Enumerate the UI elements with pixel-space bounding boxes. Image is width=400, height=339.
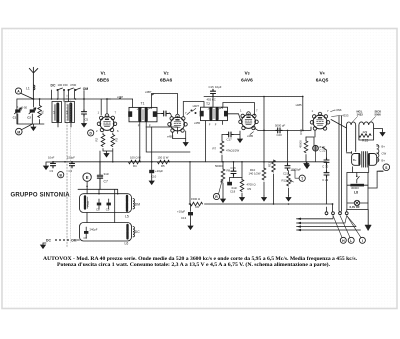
svg-text:DC: DC xyxy=(135,230,140,234)
svg-text:x4R7: x4R7 xyxy=(193,104,200,108)
svg-text:5000pF: 5000pF xyxy=(292,168,302,172)
plug I xyxy=(359,237,365,243)
wire S to L8 box xyxy=(368,165,383,188)
svg-text:+10μF: +10μF xyxy=(177,210,185,214)
svg-text:T2: T2 xyxy=(206,102,210,106)
wire V3 plate to V4 grid xyxy=(258,127,311,130)
svg-text:C3: C3 xyxy=(50,169,54,173)
pot wiper arrow xyxy=(219,181,223,194)
svg-text:45000: 45000 xyxy=(299,140,303,148)
wire long bus low xyxy=(205,203,333,205)
wire C15 top bus xyxy=(204,90,303,108)
svg-text:F: F xyxy=(215,123,217,127)
svg-text:DC: DC xyxy=(51,84,56,88)
svg-text:R4: R4 xyxy=(133,164,137,168)
wire switch drops xyxy=(52,89,85,102)
resistor R9 xyxy=(240,180,244,192)
wire T2 to V3 xyxy=(205,114,240,162)
capacitor C7 xyxy=(97,162,102,190)
wire T1 entry/exit xyxy=(133,99,190,162)
wire transformer primary to L8 box xyxy=(352,167,354,173)
field coil hump 2 xyxy=(359,122,374,140)
tube V1 xyxy=(97,114,117,132)
svg-text:150pF: 150pF xyxy=(67,156,75,160)
svg-text:GRUPPO SINTONIA: GRUPPO SINTONIA xyxy=(11,193,71,199)
capacitor C21 xyxy=(287,130,289,164)
tuning box wires xyxy=(17,99,44,125)
winding L6 xyxy=(126,225,128,239)
svg-text:x485: x485 xyxy=(296,103,303,107)
wire V2 plate to T2 xyxy=(183,102,204,117)
svg-text:C1: C1 xyxy=(13,116,17,120)
resistor R14 xyxy=(304,141,308,153)
coil tap DM xyxy=(133,199,135,209)
svg-text:x-6N6: x-6N6 xyxy=(334,108,342,112)
svg-text:R5: R5 xyxy=(161,164,165,168)
svg-text:6AQ5: 6AQ5 xyxy=(316,78,329,84)
wire diagonals to terminals xyxy=(327,216,357,227)
wire to ground xyxy=(374,129,383,131)
terminal row xyxy=(325,212,328,215)
trimmer C1 xyxy=(14,108,21,114)
svg-text:B+: B+ xyxy=(353,158,357,162)
svg-text:C15: C15 xyxy=(209,85,215,89)
ground xyxy=(380,131,385,136)
capacitor C3 xyxy=(51,162,56,168)
antenna xyxy=(29,67,38,99)
svg-text:1500 Ω: 1500 Ω xyxy=(191,197,200,201)
svg-text:C17: C17 xyxy=(227,138,233,142)
ground xyxy=(46,162,53,164)
resistor R11 xyxy=(272,160,276,172)
wire V4 pins to labels xyxy=(331,111,341,117)
main lower bus xyxy=(53,161,327,163)
svg-text:x4B7: x4B7 xyxy=(145,90,152,94)
capacitor C30 xyxy=(324,158,329,164)
capacitor C6 xyxy=(84,231,88,234)
svg-text:R14: R14 xyxy=(299,129,303,135)
svg-text:F: F xyxy=(209,123,211,127)
resistor R15 xyxy=(359,134,371,138)
coil tap DC xyxy=(133,227,135,237)
ground xyxy=(31,125,36,130)
svg-text:x4B2: x4B2 xyxy=(167,135,174,139)
svg-text:6BA6: 6BA6 xyxy=(160,78,173,84)
svg-text:B+: B+ xyxy=(382,159,386,163)
switch on top edge xyxy=(357,173,360,184)
svg-text:DC: DC xyxy=(46,239,51,243)
dashed border gruppo sintonia xyxy=(66,95,68,247)
tube V2 xyxy=(168,114,188,132)
svg-text:30000: 30000 xyxy=(351,186,359,190)
ground xyxy=(183,141,188,146)
ground near C20 xyxy=(306,162,308,163)
capacitor C17 xyxy=(227,132,233,137)
wire switch to box xyxy=(77,213,87,241)
wire below V2 xyxy=(173,131,186,141)
svg-text:100 150: 100 150 xyxy=(58,83,69,87)
svg-text:7500: 7500 xyxy=(86,200,90,207)
svg-text:C8: C8 xyxy=(96,208,100,212)
lower coil box L6 xyxy=(80,223,132,242)
svg-text:OM: OM xyxy=(83,87,89,91)
resistor R2 xyxy=(101,135,105,147)
capacitor C22 electrolytic xyxy=(313,145,319,151)
svg-text:4700: 4700 xyxy=(70,83,77,87)
svg-text:CW: CW xyxy=(382,151,387,155)
svg-text:C5: C5 xyxy=(85,118,89,122)
terminal M xyxy=(15,128,22,135)
svg-text:C6: C6 xyxy=(84,236,88,240)
wire plate to output transformer xyxy=(331,120,347,129)
supply bus arrows xyxy=(297,219,361,230)
svg-text:R6: R6 xyxy=(196,205,200,209)
svg-text:10μF: 10μF xyxy=(215,85,222,89)
svg-text:5006: 5006 xyxy=(375,113,382,117)
svg-text:5000 pF: 5000 pF xyxy=(275,124,286,128)
svg-text:E: E xyxy=(86,175,89,180)
svg-text:x4333: x4333 xyxy=(341,114,349,118)
svg-text:C16: C16 xyxy=(231,166,237,170)
svg-text:5-50: 5-50 xyxy=(22,106,28,110)
capacitor C14 xyxy=(162,111,168,116)
svg-text:R1: R1 xyxy=(41,110,45,114)
wire V1 plate to T1 xyxy=(107,98,133,99)
svg-text:47kΩ1/2W: 47kΩ1/2W xyxy=(226,149,239,153)
terminal S xyxy=(383,164,390,171)
junction dots xyxy=(52,96,333,205)
wire T1 to V2 screen xyxy=(152,94,178,115)
wire terminal feeds xyxy=(327,204,347,212)
trimmer C2 xyxy=(29,108,36,114)
wire T2 top to V3 plate xyxy=(223,103,258,131)
potentiometer R12 xyxy=(287,174,291,186)
wire from A to antenna base xyxy=(21,93,34,99)
wire bus to R6 xyxy=(189,162,190,204)
svg-text:1433: 1433 xyxy=(357,113,364,117)
wiper arrow R12 xyxy=(290,180,294,182)
potentiometer R8 xyxy=(221,169,225,181)
capacitor C18 electrolytic xyxy=(230,178,234,182)
coil L3 box xyxy=(65,102,75,123)
svg-text:150 Ω W: 150 Ω W xyxy=(158,156,169,160)
svg-text:4700 Ω: 4700 Ω xyxy=(247,183,256,187)
wire xyxy=(222,131,240,137)
wire antenna bus xyxy=(17,98,111,100)
terminal R xyxy=(213,193,219,199)
svg-text:DM: DM xyxy=(135,202,140,206)
terminal T xyxy=(299,175,305,181)
coil L2 box xyxy=(52,102,62,123)
resistor R6 xyxy=(191,202,203,206)
resistor R3 xyxy=(111,135,115,147)
svg-text:100 Ω W: 100 Ω W xyxy=(130,156,141,160)
wire xyxy=(58,123,71,128)
output transformer xyxy=(352,152,377,168)
svg-text:C 29: C 29 xyxy=(322,178,328,182)
vertical rails right (filament pair) xyxy=(339,116,342,212)
svg-text:10nF: 10nF xyxy=(48,156,55,160)
svg-text:R3: R3 xyxy=(115,137,119,141)
svg-text:50000: 50000 xyxy=(215,164,223,168)
field coil hump 1 xyxy=(347,122,356,152)
svg-text:L1: L1 xyxy=(26,87,30,91)
svg-text:Potenza d'uscita circa 1 watt.: Potenza d'uscita circa 1 watt. Consumo t… xyxy=(57,261,331,268)
tube V4 xyxy=(310,112,330,130)
svg-text:R7: R7 xyxy=(213,147,217,151)
wire grid xyxy=(101,99,107,115)
ground under R14 xyxy=(304,162,309,167)
capacitor C29 xyxy=(324,171,329,177)
svg-text:140 1/2W: 140 1/2W xyxy=(249,172,261,176)
svg-text:C20: C20 xyxy=(277,133,283,137)
svg-text:R2: R2 xyxy=(95,137,99,141)
svg-text:L: L xyxy=(350,239,352,243)
svg-text:R9: R9 xyxy=(248,187,252,191)
switch contact left of T2 xyxy=(191,110,193,112)
svg-text:+10μF: +10μF xyxy=(155,169,163,173)
svg-text:C2: C2 xyxy=(27,116,31,120)
svg-text:6,3V RF: 6,3V RF xyxy=(350,205,361,209)
terminal D xyxy=(88,130,94,136)
wire transformer links xyxy=(346,145,383,172)
wire grid circuit V4 xyxy=(302,96,304,130)
svg-text:C7: C7 xyxy=(104,180,108,184)
big ground arrow xyxy=(367,210,369,225)
svg-text:OM: OM xyxy=(71,239,77,243)
svg-text:M: M xyxy=(17,130,20,134)
svg-text:I: I xyxy=(362,239,363,243)
IF transformer T1 xyxy=(128,102,157,128)
plug L xyxy=(348,237,354,243)
svg-text:C13: C13 xyxy=(181,216,187,220)
lamp xyxy=(354,200,359,205)
IF transformer T2 xyxy=(200,107,228,126)
resistor R4 xyxy=(129,160,141,164)
capacitor C16 xyxy=(233,162,235,170)
svg-text:x455: x455 xyxy=(194,121,201,125)
terminal E xyxy=(83,173,91,181)
ground xyxy=(238,137,243,142)
oscillator coil L5 box xyxy=(80,194,132,213)
svg-text:T1: T1 xyxy=(141,102,145,106)
resistor R7 xyxy=(220,141,224,153)
svg-text:R12: R12 xyxy=(282,179,288,183)
svg-text:C 30: C 30 xyxy=(322,165,328,169)
svg-text:R11: R11 xyxy=(268,162,272,167)
coil L1 xyxy=(33,85,35,90)
L8 block box xyxy=(347,173,368,210)
svg-text:C9: C9 xyxy=(106,208,110,212)
resistor R10 xyxy=(262,168,266,180)
svg-text:C18: C18 xyxy=(230,190,236,194)
wire fan to plugs xyxy=(333,216,361,238)
svg-text:3mF: 3mF xyxy=(104,172,110,176)
svg-text:F: F xyxy=(138,124,140,128)
svg-text:L8: L8 xyxy=(354,191,358,195)
svg-text:C21: C21 xyxy=(283,172,289,176)
svg-text:R15: R15 xyxy=(362,139,368,143)
capacitor C20 xyxy=(276,128,282,133)
wire E row xyxy=(78,181,118,222)
capacitor C10 xyxy=(151,162,153,170)
choke L8 xyxy=(350,184,364,187)
capacitor C5 xyxy=(82,110,87,116)
svg-text:240pF: 240pF xyxy=(90,228,98,232)
svg-text:L5: L5 xyxy=(125,214,129,218)
svg-text:429: 429 xyxy=(363,130,368,134)
wire below V1 xyxy=(100,133,113,162)
svg-text:L6: L6 xyxy=(125,242,129,246)
resistor R1 xyxy=(38,106,42,118)
wire cathode net xyxy=(306,130,315,145)
svg-text:L2: L2 xyxy=(52,110,56,114)
ground xyxy=(43,242,46,244)
svg-text:B+: B+ xyxy=(382,145,386,149)
terminal A xyxy=(15,88,21,94)
svg-text:6AV6: 6AV6 xyxy=(241,78,253,84)
svg-text:6BE6: 6BE6 xyxy=(97,78,109,84)
plug H xyxy=(340,237,346,243)
capacitor C4 xyxy=(70,162,75,168)
terminal B xyxy=(58,172,64,178)
tube V3 xyxy=(239,112,259,130)
ground xyxy=(104,152,109,157)
wire M to box xyxy=(22,124,33,130)
resistor R5 xyxy=(158,160,170,164)
